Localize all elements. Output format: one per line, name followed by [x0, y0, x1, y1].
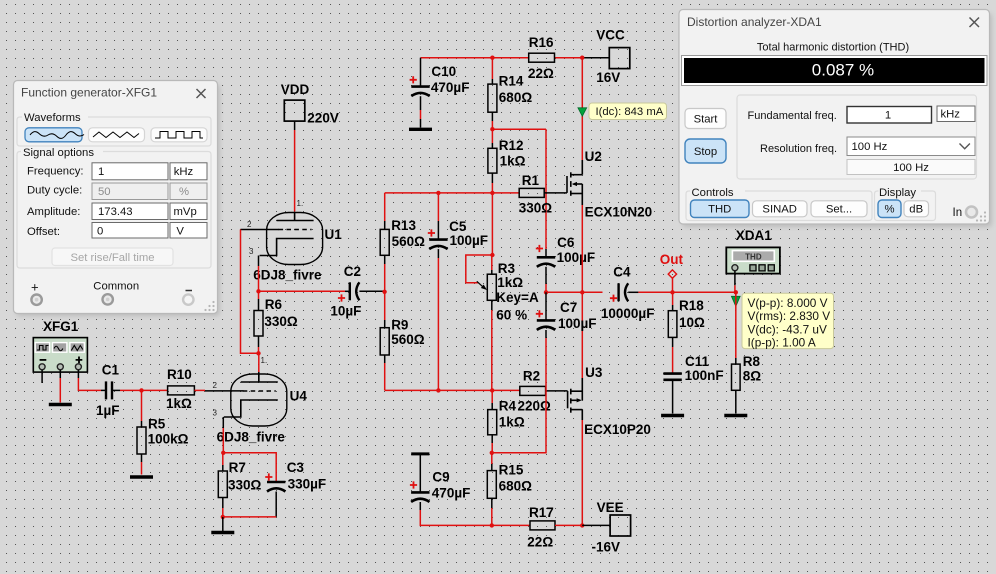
junction C1 / R5 / R10	[139, 388, 143, 392]
wire C3 bottom to R7 bottom	[223, 516, 276, 518]
svg-text:1.: 1.	[297, 199, 304, 208]
svg-text:R10: R10	[167, 367, 192, 382]
resistor R18	[668, 292, 677, 373]
power symbol VDD 220V	[284, 100, 305, 121]
svg-text:220V: 220V	[307, 110, 339, 125]
svg-text:Duty cycle:: Duty cycle:	[27, 185, 82, 197]
wire pot node to R2	[492, 389, 520, 391]
svg-text:1: 1	[98, 166, 104, 178]
wire Out marker stub	[672, 278, 674, 292]
svg-text:22Ω: 22Ω	[528, 66, 554, 81]
wire XFG1 common to ground	[59, 370, 61, 403]
junction output row / R18 Out	[670, 290, 674, 294]
instrument icon XDA1	[726, 247, 780, 273]
svg-text:6DJ8_fivre: 6DJ8_fivre	[253, 268, 322, 283]
power symbol VEE -16V	[610, 515, 631, 536]
svg-text:R5: R5	[148, 416, 166, 431]
svg-text:10µF: 10µF	[330, 303, 361, 318]
wire VCC supply stub	[582, 57, 609, 59]
svg-text:SINAD: SINAD	[762, 204, 797, 216]
svg-text:3: 3	[213, 409, 218, 418]
junction output row / R8 XDA1	[734, 290, 738, 294]
wire XFG1 plus to C1	[78, 370, 101, 391]
svg-text:1kΩ: 1kΩ	[166, 396, 192, 411]
svg-text:10Ω: 10Ω	[679, 315, 705, 330]
svg-text:C3: C3	[287, 460, 305, 475]
svg-text:R3: R3	[498, 261, 516, 276]
svg-text:R15: R15	[499, 462, 524, 477]
junction R7 / C3 / ground	[221, 515, 225, 519]
plus mark C9	[410, 481, 417, 488]
svg-text:100 Hz: 100 Hz	[852, 141, 888, 153]
resistor R5	[137, 390, 146, 474]
resistor R9	[380, 292, 389, 391]
svg-text:0: 0	[97, 226, 103, 238]
wire VDD to U1 plate	[294, 122, 296, 212]
svg-text:R18: R18	[679, 298, 704, 313]
capacitor C9 with open terminal bar	[411, 454, 429, 510]
ground below XFG1 common	[49, 403, 72, 406]
svg-text:Distortion analyzer-XDA1: Distortion analyzer-XDA1	[687, 15, 822, 29]
svg-text:470µF: 470µF	[431, 80, 470, 95]
svg-text:C4: C4	[613, 264, 631, 279]
junction C2 / R13 / R9	[382, 290, 386, 294]
junction pot wiper node	[490, 253, 494, 257]
wire R13 bottom to C2 node	[384, 255, 386, 291]
wire U3 source up to output node	[581, 292, 583, 378]
svg-text:Start: Start	[694, 114, 719, 126]
wire R2 to U3 gate	[546, 390, 568, 392]
wire XFG1 minus stub	[41, 370, 43, 383]
resistor R15	[487, 453, 496, 526]
resistor R8	[732, 292, 741, 413]
resistor R7	[218, 453, 227, 517]
wire top rail R16 to U2 drain column	[555, 57, 583, 59]
plus mark C4	[610, 295, 617, 302]
junction top rail / U2 drain	[580, 56, 584, 60]
probe tooltip I(dc): 843 mA	[589, 103, 667, 120]
plus mark C5	[428, 229, 435, 236]
wire U1 cathode down to R6 node	[258, 256, 260, 292]
wire R17 to U3 drain column	[555, 524, 582, 526]
svg-text:R1: R1	[522, 173, 540, 188]
svg-text:In: In	[953, 207, 963, 219]
svg-text:U2: U2	[585, 149, 602, 164]
capacitor C5	[429, 240, 447, 250]
transistor U3 ECX10P20 p-mosfet	[568, 378, 583, 420]
plus mark C3	[265, 473, 272, 480]
svg-text:C10: C10	[431, 64, 456, 79]
resistor R13	[380, 229, 389, 255]
svg-text:1: 1	[885, 110, 891, 122]
svg-text:Set...: Set...	[826, 204, 852, 216]
svg-text:C5: C5	[449, 219, 467, 234]
junction R4 / R15 / C7	[490, 451, 494, 455]
wire C5 bottom to R2 row	[437, 249, 439, 390]
junction U4 cathode / R7 / C3	[221, 451, 225, 455]
wire VEE rail to R17	[492, 524, 530, 526]
resistor R1	[519, 188, 544, 197]
svg-text:mVp: mVp	[174, 206, 197, 218]
svg-text:100µF: 100µF	[557, 250, 596, 265]
svg-text:22Ω: 22Ω	[527, 534, 553, 549]
svg-text:ECX10N20: ECX10N20	[585, 204, 653, 219]
svg-text:-16V: -16V	[592, 539, 621, 554]
svg-text:1µF: 1µF	[96, 403, 120, 418]
ground below C10	[409, 128, 432, 131]
svg-text:R13: R13	[391, 218, 416, 233]
plus mark C7	[536, 310, 543, 317]
svg-text:VEE: VEE	[597, 500, 624, 515]
probe tooltip V(p-p) readings	[742, 293, 834, 350]
wire U1 grid lead	[241, 229, 280, 231]
wiper arrow into pot R3	[477, 281, 487, 290]
svg-text:I(dc): 843 mA: I(dc): 843 mA	[596, 106, 664, 118]
svg-text:1kΩ: 1kΩ	[497, 275, 523, 290]
svg-text:60 %: 60 %	[496, 308, 527, 323]
wire R13 column from gate row corner	[384, 193, 386, 230]
wire U4 cathode down	[222, 417, 224, 453]
svg-text:3: 3	[249, 247, 254, 256]
junction gate row / C5 column	[436, 191, 440, 195]
svg-text:470µF: 470µF	[432, 486, 471, 501]
capacitor C7	[537, 292, 555, 338]
svg-text:R4: R4	[499, 399, 517, 414]
svg-text:R2: R2	[523, 368, 540, 383]
svg-text:560Ω: 560Ω	[392, 234, 426, 249]
ground below R7	[222, 517, 224, 531]
dialog Distortion analyzer-XDA1	[679, 10, 992, 228]
wire R9 bottom corner right to R2 row	[385, 389, 438, 391]
svg-text:8Ω: 8Ω	[743, 369, 762, 384]
resistor R10	[168, 386, 195, 395]
junction top rail / R14	[490, 56, 494, 60]
wire top VCC rail from C10 to R16	[421, 57, 530, 59]
capacitor C4	[619, 283, 673, 301]
capacitor C1	[101, 381, 142, 399]
svg-text:Out: Out	[660, 252, 684, 267]
svg-text:6DJ8_fivre: 6DJ8_fivre	[217, 429, 286, 444]
instrument icon XFG1	[33, 338, 87, 373]
wire output row C7 node to C4 and Out	[546, 291, 603, 293]
wire C1 node to R10	[142, 389, 168, 391]
svg-text:330Ω: 330Ω	[264, 314, 298, 329]
wire U4 plate lead	[258, 353, 260, 382]
svg-text:%: %	[179, 186, 189, 198]
wire C2 row cathode node to cap	[259, 290, 346, 292]
tube U1 6DJ8 triode	[260, 213, 323, 265]
svg-text:C1: C1	[102, 362, 120, 377]
svg-text:173.43: 173.43	[98, 206, 133, 218]
svg-text:0.087 %: 0.087 %	[812, 61, 874, 80]
wire U1 grid down-left to U4 plate node	[241, 230, 259, 354]
wire potentiometer wiper loop	[466, 255, 493, 283]
svg-text:Fundamental freq.: Fundamental freq.	[748, 110, 837, 122]
svg-text:16V: 16V	[596, 70, 620, 85]
svg-text:U1: U1	[325, 227, 343, 242]
node marker Out diamond	[668, 270, 676, 278]
svg-text:100 Hz: 100 Hz	[893, 162, 929, 174]
wire C7 bottom to R4/R15 node	[492, 338, 546, 453]
svg-text:100µF: 100µF	[558, 316, 597, 331]
junction R14/R12/C6 node	[490, 127, 494, 131]
resistor R14	[488, 58, 497, 130]
svg-text:V: V	[176, 226, 184, 238]
svg-text:R14: R14	[499, 73, 524, 88]
svg-text:100nF: 100nF	[685, 368, 724, 383]
wire XDA1 probe to output node	[734, 271, 736, 293]
svg-text:680Ω: 680Ω	[499, 479, 533, 494]
wire gate row R13 corner to R1	[385, 192, 520, 194]
svg-text:Set rise/Fall time: Set rise/Fall time	[70, 252, 154, 264]
resistor R17	[530, 521, 555, 530]
wire U3 drain down to VEE rail	[581, 420, 583, 525]
svg-text:Key=A: Key=A	[496, 290, 539, 305]
svg-text:Stop: Stop	[694, 146, 717, 158]
svg-text:Total harmonic distortion (THD: Total harmonic distortion (THD)	[757, 42, 909, 54]
svg-text:R8: R8	[743, 354, 761, 369]
svg-text:XDA1: XDA1	[736, 228, 773, 243]
ground below R8	[724, 414, 747, 417]
svg-text:THD: THD	[745, 252, 762, 261]
wire output row to R8 node	[673, 291, 736, 293]
svg-text:R16: R16	[529, 35, 554, 50]
svg-text:50: 50	[98, 186, 111, 198]
svg-text:Offset:: Offset:	[27, 226, 60, 238]
wire VEE supply stub	[582, 524, 610, 526]
voltage probe arrow at output	[731, 296, 740, 306]
svg-text:%: %	[884, 204, 894, 216]
junction U1 cathode / R6 / C2	[256, 289, 260, 293]
svg-text:kHz: kHz	[174, 166, 194, 178]
transistor U2 ECX10N20 n-mosfet	[567, 160, 582, 205]
svg-text:Signal options: Signal options	[23, 147, 94, 159]
wire C5 node to pot node	[438, 389, 492, 391]
junction VEE rail / U3 drain	[580, 523, 584, 527]
svg-text:XFG1: XFG1	[43, 319, 79, 334]
svg-text:1.: 1.	[261, 356, 268, 365]
junction R6 bottom / U4 plate	[256, 351, 260, 355]
tube U4 6DJ8 triode	[224, 374, 287, 426]
resistor R4	[488, 390, 497, 452]
svg-text:+: +	[31, 280, 39, 295]
svg-text:Resolution freq.: Resolution freq.	[760, 143, 837, 155]
capacitor C11	[663, 374, 681, 414]
svg-text:Function generator-XFG1: Function generator-XFG1	[21, 86, 157, 100]
resistor R16	[529, 53, 555, 62]
capacitor C3	[267, 482, 285, 517]
potentiometer R3 body	[487, 255, 496, 390]
junction output row / U2-U3	[580, 290, 584, 294]
power symbol VCC 16V	[609, 48, 630, 69]
wire C5 column	[437, 193, 439, 240]
svg-text:330Ω: 330Ω	[228, 478, 262, 493]
svg-text:C7: C7	[560, 300, 577, 315]
svg-text:Controls: Controls	[692, 187, 734, 199]
dialog Function generator-XFG1	[14, 81, 221, 317]
junction R2 row / pot-R4 column	[490, 388, 494, 392]
svg-text:V(dc): -43.7 uV: V(dc): -43.7 uV	[748, 322, 827, 336]
svg-text:330µF: 330µF	[288, 476, 327, 491]
svg-text:330Ω: 330Ω	[519, 200, 553, 215]
svg-text:R9: R9	[391, 318, 408, 333]
svg-text:C6: C6	[557, 235, 575, 250]
wire pot column from gate-row junction down	[491, 193, 493, 255]
resistor R12	[488, 129, 497, 193]
wire C9 to VEE rail	[420, 510, 492, 525]
svg-text:10000µF: 10000µF	[601, 306, 655, 321]
svg-text:R17: R17	[529, 505, 554, 520]
capacitor C2	[345, 282, 385, 300]
svg-text:Display: Display	[879, 187, 916, 199]
plus mark C10	[410, 76, 417, 83]
plus mark C6	[536, 245, 543, 252]
svg-text:VCC: VCC	[596, 27, 625, 42]
svg-text:Common: Common	[93, 281, 139, 293]
svg-text:100µF: 100µF	[450, 233, 489, 248]
junction output row / C6-C7	[544, 290, 548, 294]
svg-text:ECX10P20: ECX10P20	[584, 422, 651, 437]
svg-text:U4: U4	[290, 389, 308, 404]
svg-text:I(p-p): 1.00 A: I(p-p): 1.00 A	[748, 336, 816, 350]
svg-text:1kΩ: 1kΩ	[500, 153, 526, 168]
svg-text:560Ω: 560Ω	[391, 332, 425, 347]
wire R1 to U2 gate	[544, 192, 567, 194]
svg-text:V(rms): 2.830 V: V(rms): 2.830 V	[748, 309, 831, 323]
wire C3 branch	[223, 453, 276, 482]
ground below C11	[661, 414, 684, 417]
plus mark C2	[338, 294, 345, 301]
svg-text:R12: R12	[499, 138, 524, 153]
svg-text:dB: dB	[909, 204, 923, 216]
svg-text:2: 2	[213, 381, 218, 390]
svg-text:Waveforms: Waveforms	[24, 112, 81, 124]
svg-text:V(p-p): 8.000 V: V(p-p): 8.000 V	[748, 296, 828, 310]
current probe arrow I(dc)	[578, 108, 587, 117]
svg-text:kHz: kHz	[941, 109, 961, 121]
wire R10 to U4 grid	[194, 389, 243, 392]
svg-text:Amplitude:: Amplitude:	[27, 206, 80, 218]
svg-text:THD: THD	[708, 204, 731, 216]
wire U2 drain up to VCC rail	[581, 58, 583, 160]
wire C6 bottom to output node	[545, 267, 547, 293]
svg-text:2: 2	[247, 220, 252, 229]
svg-text:Frequency:: Frequency:	[27, 166, 84, 178]
svg-text:1kΩ: 1kΩ	[499, 414, 525, 429]
svg-text:100kΩ: 100kΩ	[148, 431, 189, 446]
svg-text:VDD: VDD	[281, 82, 310, 97]
capacitor C6	[537, 257, 555, 267]
junction R2 row / C5 column	[436, 388, 440, 392]
wire R14 node to C6 column	[492, 128, 546, 130]
resistor R6	[254, 291, 263, 353]
capacitor C10	[411, 58, 429, 128]
wire U2 source down to output node	[581, 205, 583, 292]
ground below R5	[130, 475, 153, 478]
junction VEE rail / R15	[490, 523, 494, 527]
wire C6 column down	[545, 129, 547, 257]
svg-text:U3: U3	[585, 365, 603, 380]
svg-text:C2: C2	[344, 264, 361, 279]
junction gate row / R12-pot column	[490, 191, 494, 195]
svg-text:R6: R6	[265, 297, 283, 312]
svg-text:680Ω: 680Ω	[499, 90, 533, 105]
svg-text:C9: C9	[432, 469, 449, 484]
resistor R2	[520, 386, 546, 395]
svg-text:R7: R7	[229, 460, 246, 475]
